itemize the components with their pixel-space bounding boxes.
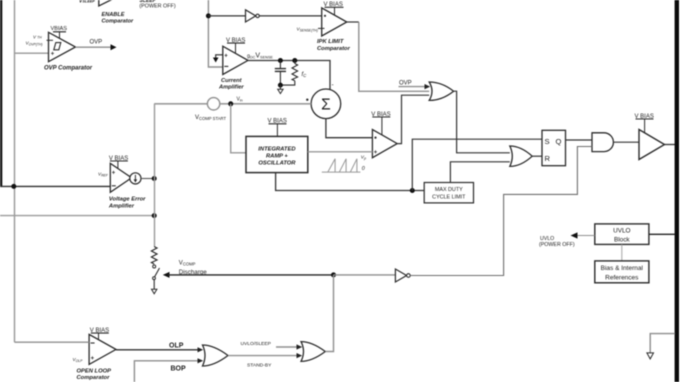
wire: left edge black feed to error amp — [0, 0, 110, 186]
block: UVLO Block — [595, 224, 649, 245]
wire: Vin node to summing input — [220, 103, 311, 105]
wire: OVP input to OR1 — [399, 84, 431, 89]
node: plus mark at summing left input — [306, 99, 308, 101]
wire: driver output to pin bar — [665, 144, 676, 146]
svg-text:BOP: BOP — [171, 365, 187, 372]
inverter U3 — [246, 10, 260, 22]
node: Vin junction — [228, 101, 233, 106]
label VCOMP Discharge — [179, 260, 207, 276]
svg-text:Comparator: Comparator — [102, 19, 135, 25]
svg-text:MAX DUTY: MAX DUTY — [435, 187, 463, 193]
node: junction on COMP riser y=215.6 — [152, 213, 157, 218]
svg-text:Σ: Σ — [321, 96, 331, 113]
wire: top vertical from top edge to current amp minus input — [208, 0, 222, 67]
wire: OR1 output to OR2 — [454, 91, 510, 153]
svg-text:OLP: OLP — [169, 342, 184, 349]
label fC — [302, 72, 308, 78]
block: MAX DUTY CYCLE LIMIT — [424, 183, 473, 203]
svg-text:UVLO: UVLO — [540, 236, 554, 242]
node: junction discharge / OR2 riser — [331, 272, 336, 277]
current source symbol error amp output — [130, 173, 141, 184]
node: junction capacitor branch — [278, 58, 283, 63]
svg-text:OPEN LOOP: OPEN LOOP — [77, 368, 112, 374]
comparator U12 OPEN LOOP — [89, 334, 116, 364]
svg-text:ENABLE: ENABLE — [102, 12, 125, 18]
svg-text:+: + — [224, 53, 228, 59]
capacitor C1 — [275, 61, 286, 86]
wire: COMP riser vertical — [154, 104, 156, 247]
svg-text:+: + — [112, 170, 116, 176]
svg-text:References: References — [605, 274, 639, 281]
label VOLP — [73, 357, 84, 363]
label V BIAS (open loop) — [90, 328, 109, 340]
node: junction resistor branch — [292, 58, 297, 63]
opamp U5 Current Amplifier — [223, 46, 248, 74]
svg-text:Discharge: Discharge — [179, 269, 207, 276]
comparator U2 ENABLE (clipped at top) — [79, 0, 114, 6]
wire: OR5 output up to discharge junction — [325, 275, 333, 352]
wire: pin bar to source arrow bottom right — [647, 334, 675, 359]
wire: OLP output to OR3 — [116, 347, 203, 352]
wire: COMP top to Vin node — [154, 103, 207, 105]
wire: OR4 output to OR5 — [228, 353, 302, 358]
wire: current amp output gDC VSENSE node — [248, 61, 330, 91]
wire: left input to dot at x154 (y=215.6) — [0, 215, 154, 217]
OR gate G2 (reset) — [510, 146, 532, 166]
label V COMP START — [195, 115, 226, 121]
label IPK LIMIT Comparator — [317, 39, 351, 52]
label OVP net — [90, 40, 103, 46]
wire: IPK output to OR1 gate — [347, 22, 429, 91]
svg-text:(POWER OFF): (POWER OFF) — [139, 4, 175, 10]
svg-text:Current: Current — [221, 78, 243, 84]
svg-text:OVP: OVP — [90, 40, 103, 46]
svg-text:IPK LIMIT: IPK LIMIT — [317, 39, 344, 45]
wire: oscillator bottom output to latch S line — [276, 173, 425, 191]
svg-text:S: S — [545, 137, 550, 146]
resistor R1 fC — [281, 61, 298, 86]
svg-text:Amplifier: Amplifier — [108, 203, 135, 209]
ground discharge — [152, 289, 157, 294]
wire: VCOMP discharge line — [163, 272, 334, 278]
svg-text:Comparator: Comparator — [317, 46, 351, 52]
label V TH input — [33, 35, 42, 40]
svg-text:Q: Q — [556, 137, 562, 146]
label BOP — [171, 365, 187, 372]
svg-text:fC: fC — [302, 72, 308, 78]
label (POWER OFF) enable output — [139, 0, 175, 10]
wire: AND output to driver — [614, 141, 640, 143]
label OPEN LOOP Comparator — [77, 368, 112, 381]
label UVLO (POWER OFF) — [539, 236, 575, 248]
wire: discharge line to inverter input — [334, 274, 396, 276]
label Vp — [361, 154, 366, 160]
svg-text:(POWER OFF): (POWER OFF) — [539, 242, 575, 248]
comparator U1 OVP — [47, 32, 76, 61]
svg-text:+: + — [91, 356, 95, 362]
svg-text:OVP: OVP — [399, 81, 412, 87]
node: junction S riser — [410, 188, 415, 193]
label Current Amplifier — [218, 78, 244, 91]
svg-text:VCOMP: VCOMP — [179, 260, 196, 266]
wire: inverter output to IPK comparator — [259, 15, 321, 17]
label ENABLE Comparator — [102, 12, 135, 25]
pin bar right edge — [675, 0, 679, 382]
block: Bias & Internal References — [595, 261, 649, 283]
label V BIAS (PWM) — [371, 112, 390, 135]
wire: UVLO power-off output arrow — [571, 232, 595, 238]
label V BIAS (driver) — [635, 114, 654, 133]
wire: UVLO/SLEEP input to OR5 — [276, 344, 302, 349]
label VSENSE(TH) input — [297, 26, 318, 32]
label gDC VSENSE — [247, 53, 273, 60]
label V BIAS (current amp) — [226, 38, 245, 53]
wire: current amp plus-input sense arrow — [213, 55, 223, 63]
label Voltage Error Amplifier — [108, 197, 146, 210]
wire: junction to inverter — [208, 15, 245, 17]
svg-text:Bias & Internal: Bias & Internal — [601, 265, 644, 272]
wire: bus to open loop minus input — [15, 341, 90, 343]
buffer U9 driver — [639, 130, 665, 160]
inverter U11 — [395, 269, 410, 282]
summing node U6 — [311, 82, 341, 119]
svg-text:R: R — [545, 154, 551, 163]
OR gate G5 (fault OR) — [301, 342, 325, 362]
block: INTEGRATED RAMP + OSCILLATOR — [246, 136, 308, 172]
OR gate G1 (OVP / IPK / PWM) — [429, 82, 453, 100]
label 0 — [362, 166, 365, 172]
wire: PWM output up to OR1 — [397, 95, 429, 143]
wire: Vin to oscillator input — [231, 104, 246, 153]
node: junction bus / error amp input — [11, 184, 16, 189]
node: junction top wire — [206, 13, 211, 18]
wire: OVP comparator output — [76, 44, 117, 50]
svg-text:Block: Block — [614, 236, 630, 243]
node: junction COMP — [152, 176, 157, 181]
wire: MAX DUTY output to OR2 — [450, 162, 509, 183]
label UVLO/SLEEP — [241, 341, 271, 347]
svg-text:VBIAS: VBIAS — [51, 26, 68, 32]
svg-text:STAND-BY: STAND-BY — [247, 363, 272, 369]
svg-text:Voltage Error: Voltage Error — [109, 197, 146, 203]
label OVP at OR1 — [399, 81, 412, 87]
svg-text:-: - — [332, 82, 334, 89]
svg-text:+: + — [51, 52, 55, 58]
wire: Q output to AND gate — [566, 139, 593, 141]
svg-text:RAMP +: RAMP + — [266, 154, 288, 160]
resistor R2 COMP discharge — [151, 247, 157, 264]
wire: UVLO to references link — [621, 244, 623, 261]
svg-text:VCOMP START: VCOMP START — [195, 115, 226, 121]
wire: BOP input from bottom — [134, 358, 203, 382]
svg-text:UVLO: UVLO — [613, 228, 630, 235]
label VREF — [98, 171, 109, 177]
wire: riser to S input — [412, 139, 542, 190]
waveform sawtooth — [322, 159, 361, 172]
svg-text:OVP Comparator: OVP Comparator — [44, 66, 93, 72]
label VBIAS (OVP comparator) — [51, 26, 68, 38]
svg-text:0: 0 — [362, 166, 365, 172]
comparator U7 PWM — [372, 130, 397, 158]
label V BIAS (error amp) — [109, 156, 128, 169]
svg-text:+: + — [374, 150, 378, 156]
AND gate G3 — [592, 133, 613, 152]
wire: inverter output up to AND gate — [410, 147, 592, 276]
ground — [278, 85, 283, 94]
source V COMP START — [207, 98, 219, 110]
wire: left vertical bus — [14, 0, 16, 342]
OR gate G4 (OLP/BOP) — [203, 345, 229, 366]
label STAND-BY — [247, 363, 272, 369]
svg-text:INTEGRATED: INTEGRATED — [258, 147, 296, 153]
switch S1 discharge — [153, 265, 160, 289]
svg-text:Comparator: Comparator — [77, 375, 111, 381]
svg-text:OSCILLATOR: OSCILLATOR — [258, 161, 296, 167]
label V BIAS (oscillator) — [268, 119, 287, 137]
svg-text:Amplifier: Amplifier — [218, 85, 244, 91]
svg-text:V TH: V TH — [33, 35, 42, 40]
label Vin — [237, 96, 243, 102]
comparator U4 IPK LIMIT — [318, 8, 347, 36]
wire: summing output to PWM comparator — [326, 119, 373, 138]
label OLP — [169, 342, 184, 349]
node: junction capacitor bottom — [278, 83, 283, 88]
opamp U10 Voltage Error Amplifier — [110, 163, 131, 192]
wire: bus to OVP comparator input — [15, 52, 49, 54]
svg-text:CYCLE LIMIT: CYCLE LIMIT — [432, 195, 466, 201]
wire: oscillator ramp output to PWM plus input — [308, 151, 373, 153]
latch U8 SR — [542, 130, 566, 165]
label V BIAS (IPK) — [324, 2, 344, 15]
label V OVP(TH) input — [26, 41, 43, 47]
svg-text:UVLO/SLEEP: UVLO/SLEEP — [241, 341, 271, 347]
label OVP Comparator — [44, 66, 93, 72]
wire: UVLO block to pin bar — [649, 233, 675, 235]
wire: OR2 output to R input — [532, 155, 542, 157]
wire: error amp output to COMP riser — [141, 178, 154, 180]
